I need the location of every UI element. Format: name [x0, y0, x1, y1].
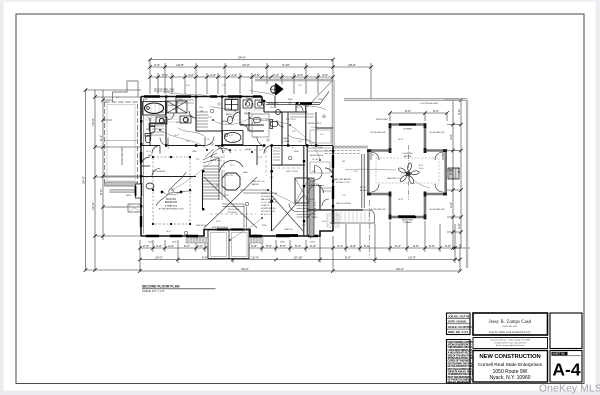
- svg-text:DATE: 01/05/21: DATE: 01/05/21: [448, 320, 467, 324]
- svg-text:11'-2": 11'-2": [230, 165, 235, 167]
- svg-text:OneKey MLS: OneKey MLS: [539, 384, 600, 395]
- extra tiny dimension texts inside rooms: [146, 112, 346, 233]
- bath2 tub: [223, 131, 244, 145]
- svg-text:BATH 2: BATH 2: [226, 113, 234, 116]
- svg-text:5'-8": 5'-8": [251, 244, 257, 248]
- svg-text:Email: zampscasd@architect.com: Email: zampscasd@architect.com: [496, 345, 525, 347]
- masonry chase wall: [309, 178, 314, 236]
- svg-text:4'-0": 4'-0": [168, 244, 174, 248]
- roof hip diagonal: [307, 80, 333, 107]
- svg-text:3'-0": 3'-0": [449, 134, 453, 140]
- caption second floor plan: [142, 285, 216, 294]
- staircase: [203, 148, 243, 200]
- svg-text:ROOF BELOW: ROOF BELOW: [371, 132, 387, 134]
- svg-text:34'-0": 34'-0": [238, 55, 246, 59]
- right wing extension lines: [444, 100, 470, 248]
- svg-text:OPEN: OPEN: [283, 141, 290, 143]
- svg-text:ATTIC: ATTIC: [360, 186, 367, 189]
- svg-text:5'-4": 5'-4": [295, 244, 301, 248]
- svg-text:16'-0": 16'-0": [166, 231, 171, 233]
- svg-text:5'-0": 5'-0": [429, 244, 435, 248]
- left dimension col 1: [85, 90, 87, 270]
- toilet 2: [146, 183, 154, 189]
- wing top dimension: [390, 112, 447, 114]
- svg-text:3'-6": 3'-6": [254, 73, 260, 77]
- door arcs: [152, 113, 329, 221]
- svg-text:5'-0": 5'-0": [266, 244, 272, 248]
- svg-text:13'-2": 13'-2": [298, 141, 303, 143]
- svg-text:ROOF BELOW: ROOF BELOW: [120, 147, 124, 165]
- fireplace chimney: [295, 178, 316, 217]
- top dimension line row 3: [150, 76, 333, 78]
- svg-text:3068 SLDR: 3068 SLDR: [196, 225, 207, 227]
- dimension tick marks: [84, 58, 463, 273]
- svg-text:12'-4": 12'-4": [146, 151, 151, 153]
- svg-text:TUB: TUB: [160, 112, 165, 114]
- top dimension line row 2: [150, 66, 371, 68]
- svg-text:3'-8": 3'-8": [210, 73, 216, 77]
- svg-text:12'-0": 12'-0": [408, 255, 416, 259]
- left dimension col 2: [94, 90, 96, 270]
- bathtub: [143, 102, 166, 116]
- svg-text:18'-0": 18'-0": [348, 63, 356, 67]
- svg-text:3'-0": 3'-0": [457, 223, 461, 229]
- svg-text:6'-8": 6'-8": [252, 123, 256, 125]
- leader arrows upper: [165, 90, 326, 143]
- main house outer walls: [141, 92, 333, 237]
- svg-text:5'-0": 5'-0": [280, 244, 286, 248]
- svg-text:8'-0": 8'-0": [345, 255, 351, 259]
- hall guardrail lines: [222, 170, 268, 200]
- svg-text:14'-8": 14'-8": [398, 199, 403, 201]
- svg-text:NEW CONSTRUCTION: NEW CONSTRUCTION: [479, 354, 540, 360]
- svg-text:AT 16" O.C.: AT 16" O.C.: [261, 213, 272, 216]
- switch symbols: [146, 147, 444, 241]
- svg-text:7'-4": 7'-4": [298, 85, 302, 87]
- svg-text:3'-8": 3'-8": [258, 157, 263, 159]
- notes box: [447, 340, 471, 384]
- svg-text:4'-6": 4'-6": [186, 141, 190, 143]
- svg-text:LIN: LIN: [200, 111, 204, 113]
- svg-text:BEDRM 3: BEDRM 3: [268, 103, 279, 105]
- svg-text:9' TRAY CLG: 9' TRAY CLG: [165, 205, 178, 208]
- svg-text:9'-4": 9'-4": [99, 135, 103, 141]
- svg-text:4'-0": 4'-0": [229, 135, 234, 137]
- svg-text:2'-0": 2'-0": [143, 244, 149, 248]
- svg-text:A-4: A-4: [552, 360, 580, 380]
- left small deck box: [128, 204, 141, 212]
- svg-text:14'-6": 14'-6": [91, 202, 95, 210]
- note speckle cluster: [261, 192, 279, 216]
- svg-text:SECOND FLOOR PLAN: SECOND FLOOR PLAN: [142, 285, 180, 289]
- svg-text:5'-0": 5'-0": [310, 244, 316, 248]
- svg-text:ROOF BELOW: ROOF BELOW: [154, 88, 175, 92]
- svg-text:DORMER: DORMER: [403, 129, 412, 131]
- svg-text:LINE OF RIDGE: LINE OF RIDGE: [336, 203, 351, 205]
- bay roof bump below wall: [208, 230, 249, 259]
- svg-text:5'-0": 5'-0": [364, 244, 370, 248]
- svg-text:Tel: 845-358-1971 Fax: 845-3: Tel: 845-358-1971 Fax: 845-358-1972: [494, 342, 526, 344]
- window blocks left wall: [140, 152, 142, 227]
- bonus room wing walls: [367, 125, 447, 218]
- svg-text:FP FLUE: FP FLUE: [306, 199, 315, 201]
- svg-text:BALCONY ABOVE: BALCONY ABOVE: [334, 178, 352, 181]
- svg-text:M BATH: M BATH: [168, 104, 176, 107]
- svg-text:ABOVE: ABOVE: [252, 183, 260, 186]
- svg-text:22'-2": 22'-2": [396, 267, 404, 271]
- svg-text:LIN: LIN: [199, 107, 203, 109]
- linen shelves: [196, 112, 208, 127]
- svg-text:3'-0": 3'-0": [457, 109, 461, 115]
- svg-text:CONT RIDGE VENT: CONT RIDGE VENT: [420, 103, 439, 105]
- svg-text:4'-4": 4'-4": [337, 244, 343, 248]
- window seat dark bar: [276, 234, 298, 237]
- svg-text:(845) 358-1971: (845) 358-1971: [503, 325, 519, 328]
- svg-text:BEDROOM 4: BEDROOM 4: [310, 155, 324, 157]
- left deck grey strip: [110, 190, 141, 193]
- small text clutter blocks: [148, 103, 370, 223]
- svg-text:SCALE: AS NOTED: SCALE: AS NOTED: [448, 325, 472, 329]
- top edge shadow: [0, 0, 600, 2]
- curtain rod curve: [162, 192, 181, 195]
- deck hatch strips: [186, 238, 263, 244]
- bedroom2 bed outline: [310, 130, 331, 143]
- svg-text:3'-4": 3'-4": [302, 225, 306, 227]
- svg-text:FOYER BELOW: FOYER BELOW: [261, 208, 276, 210]
- svg-text:BEDROOM: BEDROOM: [165, 201, 177, 204]
- svg-text:6'-0": 6'-0": [270, 177, 274, 179]
- door jamb blocks: [140, 95, 334, 222]
- svg-text:4'-2": 4'-2": [312, 171, 316, 173]
- electrical leader curves: [160, 118, 430, 240]
- svg-text:ROOF BELOW: ROOF BELOW: [430, 209, 446, 211]
- svg-text:36" HIGH WD: 36" HIGH WD: [261, 196, 274, 198]
- svg-text:BEDROOM 2: BEDROOM 2: [308, 123, 322, 125]
- window blocks right wall: [332, 155, 334, 224]
- svg-text:9'-6": 9'-6": [202, 255, 208, 259]
- closet double arcs upper right: [246, 98, 303, 111]
- svg-text:14'-8": 14'-8": [398, 139, 403, 141]
- window blocks on top wall: [144, 95, 261, 98]
- sinks: [159, 100, 264, 124]
- svg-text:3'-0": 3'-0": [266, 119, 270, 121]
- svg-text:UP 17R: UP 17R: [226, 175, 234, 177]
- svg-text:SCALE: 1/4" = 1'-0": SCALE: 1/4" = 1'-0": [142, 289, 165, 293]
- hall railing spindles: [222, 204, 247, 230]
- svg-text:5'-2": 5'-2": [116, 97, 120, 99]
- section marker: [271, 83, 284, 108]
- svg-text:W.I.C.: W.I.C.: [312, 217, 318, 219]
- svg-text:3'-0": 3'-0": [433, 109, 439, 113]
- svg-text:6'-0": 6'-0": [186, 85, 190, 87]
- svg-text:4'-0": 4'-0": [297, 73, 303, 77]
- svg-text:2x8 CJ 16OC: 2x8 CJ 16OC: [286, 171, 299, 173]
- svg-text:5057 EGRESS: 5057 EGRESS: [152, 171, 166, 173]
- svg-text:DWG. NO: 4 of 6: DWG. NO: 4 of 6: [448, 330, 469, 334]
- extra bath fixtures: [145, 100, 261, 143]
- bedroom4 furniture: [310, 162, 330, 173]
- svg-text:LIGHTING: LIGHTING: [402, 153, 413, 155]
- svg-text:DECK: DECK: [126, 195, 132, 197]
- svg-text:4" O.C. MAX TYP: 4" O.C. MAX TYP: [261, 201, 277, 204]
- left wall window bay: [136, 184, 142, 198]
- svg-text:Nyack, N.Y. 10960: Nyack, N.Y. 10960: [489, 375, 530, 381]
- toilet 1: [149, 124, 155, 134]
- svg-text:34'-0": 34'-0": [241, 267, 249, 271]
- svg-text:2'-6": 2'-6": [292, 131, 296, 133]
- svg-text:Cornell Real State Enterprise: Cornell Real State Enterprises: [478, 362, 543, 368]
- svg-text:6'-0": 6'-0": [395, 244, 401, 248]
- bottom extension lines: [140, 221, 460, 271]
- closet shelf lines: [152, 100, 331, 191]
- svg-text:PROVIDE 2x6: PROVIDE 2x6: [210, 157, 224, 159]
- svg-text:6'-10": 6'-10": [282, 63, 290, 67]
- svg-text:30x22: 30x22: [310, 181, 316, 183]
- svg-text:2021 ALL RIGHTS RESV: 2021 ALL RIGHTS RESV: [448, 381, 472, 384]
- svg-text:FOYER 9' CLG: FOYER 9' CLG: [336, 182, 350, 184]
- svg-text:6'-0": 6'-0": [413, 244, 419, 248]
- extra bottom wall window bars: [186, 235, 262, 237]
- svg-text:3'-0": 3'-0": [197, 244, 203, 248]
- svg-text:ABOVE: ABOVE: [404, 155, 412, 158]
- svg-text:10'-10": 10'-10": [293, 255, 302, 259]
- recessed light dots: [152, 117, 321, 241]
- dash-dot centerline below wing: [369, 200, 371, 258]
- svg-text:5'-2": 5'-2": [254, 137, 258, 139]
- wing interior door arcs: [371, 152, 443, 192]
- wing chimney hatched box: [448, 168, 459, 179]
- right edge shadow: [596, 0, 600, 395]
- svg-text:2'-0": 2'-0": [208, 117, 212, 119]
- svg-text:ROOF BELOW: ROOF BELOW: [371, 209, 387, 211]
- svg-text:BALUSTERS AT: BALUSTERS AT: [261, 198, 277, 201]
- svg-text:WC: WC: [146, 129, 150, 131]
- roof edge right of house: [332, 80, 334, 146]
- svg-text:16'-6": 16'-6": [91, 118, 95, 126]
- svg-text:9'-0" CLG: 9'-0" CLG: [286, 119, 296, 121]
- svg-text:14'-6": 14'-6": [216, 221, 221, 223]
- roof outline grey lines: [255, 79, 468, 268]
- svg-text:6'-2": 6'-2": [184, 244, 190, 248]
- svg-text:AT THE NEW PINE FLOOR: AT THE NEW PINE FLOOR: [159, 208, 184, 211]
- roof edge above upper-right rooms: [255, 79, 333, 81]
- project box: [473, 351, 548, 383]
- porch roof right edge: [466, 100, 468, 268]
- svg-text:10'-8": 10'-8": [176, 63, 184, 67]
- svg-text:4'-2": 4'-2": [188, 73, 194, 77]
- svg-text:RIDGE VENT: RIDGE VENT: [376, 119, 389, 121]
- bridge corridor to wing: [307, 151, 364, 228]
- svg-text:3'-0": 3'-0": [354, 171, 358, 173]
- contact strip: [473, 338, 548, 349]
- svg-text:36" HIGH: 36" HIGH: [228, 212, 237, 214]
- svg-text:Jessy R. Zamps Casd Architectu: Jessy R. Zamps Casd Architectural LLC: [489, 331, 531, 334]
- svg-text:34'-0": 34'-0": [81, 176, 85, 184]
- svg-text:PLATE WALL: PLATE WALL: [210, 159, 223, 162]
- svg-text:5'-2": 5'-2": [222, 85, 226, 87]
- left dimension col 3: [102, 90, 104, 240]
- closet pole circles: [211, 102, 325, 145]
- left edge shadow: [0, 0, 4, 395]
- svg-text:CONT. HANDRAIL: CONT. HANDRAIL: [261, 192, 279, 195]
- svg-text:4'-0": 4'-0": [231, 73, 237, 77]
- svg-text:BATH: BATH: [222, 120, 228, 123]
- porch deck hatched roof: [330, 210, 375, 223]
- svg-text:11'x12': 11'x12': [312, 159, 319, 161]
- svg-text:4'-6": 4'-6": [322, 73, 328, 77]
- svg-text:14'-0": 14'-0": [242, 63, 250, 67]
- svg-text:3'-0": 3'-0": [449, 202, 453, 208]
- svg-text:4'-8": 4'-8": [350, 244, 356, 248]
- left wall: [140, 97, 142, 237]
- roof connector to wing: [334, 146, 368, 148]
- svg-text:5'-0": 5'-0": [445, 244, 451, 248]
- wc closet fixtures upper middle: [225, 99, 238, 124]
- dimension text labels: [81, 55, 461, 270]
- master bedroom ceiling fan: [156, 172, 192, 206]
- svg-text:DN: DN: [216, 185, 220, 187]
- wing inner dashed ceiling: [376, 158, 439, 183]
- svg-text:VAULTED CLG: VAULTED CLG: [387, 177, 401, 180]
- extra dashes family room: [210, 150, 303, 214]
- bottom dimension rows: [140, 247, 460, 249]
- svg-text:12 Haven Oak Lane - Valley Cot: 12 Haven Oak Lane - Valley Cottage, NY 1…: [490, 339, 530, 342]
- extra clutter text scatter: [116, 85, 439, 244]
- shower stall: [167, 101, 187, 113]
- bottom edge shadow: [0, 391, 600, 395]
- svg-text:SCUTTLE: SCUTTLE: [310, 184, 320, 186]
- svg-text:VANITY: VANITY: [244, 112, 252, 115]
- wing wall end blocks: [367, 123, 447, 219]
- top dimension line row 1: [150, 59, 333, 61]
- svg-text:3'-6": 3'-6": [196, 159, 200, 161]
- svg-text:14'-2": 14'-2": [155, 255, 163, 259]
- svg-text:CLG: CLG: [419, 168, 424, 170]
- svg-text:DORMER: DORMER: [403, 222, 412, 224]
- sheet number box: [550, 351, 582, 383]
- svg-text:5'-0": 5'-0": [99, 189, 103, 195]
- closet arcs right of chase: [315, 166, 323, 181]
- svg-text:2x10 FLR JSTS: 2x10 FLR JSTS: [261, 211, 276, 213]
- bottom wall: [141, 230, 333, 237]
- svg-text:2'-6": 2'-6": [206, 139, 210, 141]
- svg-text:JOB NO: 2017-08: JOB NO: 2017-08: [448, 314, 470, 318]
- master bedroom label: [159, 198, 184, 211]
- svg-text:5'-0": 5'-0": [320, 134, 324, 136]
- landing octagon: [222, 173, 240, 190]
- wing room labels: [371, 129, 446, 225]
- architect name box: [473, 313, 548, 335]
- long porch roof line top: [344, 99, 468, 101]
- svg-text:5'x6': 5'x6': [322, 221, 327, 223]
- extra door arcs dark: [141, 102, 333, 176]
- svg-text:2'-0": 2'-0": [342, 195, 346, 197]
- bath3 toilet: [270, 110, 281, 129]
- extra interior partitions upper band: [150, 97, 333, 210]
- wing ceiling fan: [398, 145, 420, 200]
- svg-text:OPEN TO: OPEN TO: [261, 205, 270, 207]
- svg-text:CLO: CLO: [270, 107, 275, 109]
- left lower ledge lines: [105, 186, 142, 207]
- bedroom3 bed: [252, 114, 269, 137]
- svg-text:2'-6": 2'-6": [154, 63, 160, 67]
- svg-text:2'-8": 2'-8": [244, 126, 248, 128]
- svg-text:4'-6": 4'-6": [156, 244, 162, 248]
- svg-text:3'-4": 3'-4": [273, 73, 279, 77]
- wing window blocks: [399, 125, 416, 218]
- left roof-below rectangle: [105, 102, 138, 184]
- job-info box: [447, 313, 471, 335]
- left extension lines: [86, 90, 142, 270]
- svg-text:WOOD RAIL: WOOD RAIL: [228, 208, 240, 211]
- svg-text:TEMP GL: TEMP GL: [284, 229, 294, 231]
- interior partition walls: [141, 97, 333, 236]
- svg-text:5'-4": 5'-4": [162, 73, 168, 77]
- master bedroom tray ceiling dashed: [153, 157, 190, 224]
- right wall: [332, 146, 334, 231]
- top extension lines: [150, 60, 371, 100]
- left roof grey strip: [105, 182, 138, 186]
- open-to-below X braces: [204, 177, 303, 231]
- top wall: [141, 97, 262, 104]
- svg-text:9'-0": 9'-0": [419, 165, 424, 167]
- bathroom tile hatch: [145, 102, 263, 123]
- right wing dimension cols: [452, 100, 454, 248]
- svg-text:ROOF BELOW: ROOF BELOW: [430, 132, 446, 134]
- stair curved top rail: [219, 160, 243, 172]
- svg-text:HALL: HALL: [243, 171, 249, 174]
- svg-text:10'-2": 10'-2": [174, 135, 179, 137]
- top-left stepped roof outline: [113, 81, 138, 102]
- svg-text:5'x7': 5'x7': [148, 118, 153, 120]
- svg-text:12'-4": 12'-4": [251, 255, 259, 259]
- svg-text:6068 ANDERSEN: 6068 ANDERSEN: [212, 226, 229, 229]
- smoke detector circles: [184, 109, 292, 235]
- svg-text:CLO: CLO: [296, 107, 301, 109]
- svg-text:LINE OF CLG: LINE OF CLG: [252, 181, 265, 183]
- upper tiny text clutter: [143, 99, 326, 143]
- blank stamp box: [550, 313, 582, 349]
- svg-text:9'-0": 9'-0": [405, 109, 411, 113]
- svg-text:SHEET NO.: SHEET NO.: [553, 353, 566, 356]
- window blocks on bottom wall: [146, 235, 318, 237]
